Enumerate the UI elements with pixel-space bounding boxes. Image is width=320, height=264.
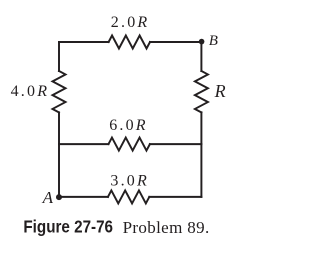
svg-text:A: A [42,188,54,207]
resistor R-4.0 zigzag (4.0R left) [53,71,66,112]
svg-text:3.0R: 3.0R [110,173,149,190]
wire top-left horizontal segment [59,41,109,43]
wire middle-right horizontal segment [150,143,202,145]
svg-text:4.0R: 4.0R [11,83,50,100]
wire right vertical top segment [200,42,202,71]
wire left vertical bottom segment [58,112,60,197]
svg-text:R: R [214,81,226,101]
resistor R-2.0 zigzag (2.0R top) [109,36,150,49]
wire middle-left horizontal segment [59,143,109,145]
node A junction dot [56,194,62,200]
resistor R-6.0 zigzag (6.0R middle) [109,138,150,151]
wire bottom-right horizontal segment [149,196,201,198]
resistor R zigzag (right) [195,71,208,112]
svg-text:B: B [209,33,218,49]
node B junction dot [199,39,205,45]
resistor R-3.0 zigzag (3.0R bottom) [108,190,149,203]
svg-text:6.0R: 6.0R [109,117,148,134]
wire left vertical top segment [58,42,60,71]
wire right vertical bottom segment [200,112,202,196]
svg-text:2.0R: 2.0R [111,14,150,31]
wire top-right horizontal segment [150,41,201,43]
svg-text:Problem 89.: Problem 89. [123,218,210,237]
wire bottom-left horizontal segment [59,196,108,198]
svg-text:Figure 27-76: Figure 27-76 [23,218,113,237]
